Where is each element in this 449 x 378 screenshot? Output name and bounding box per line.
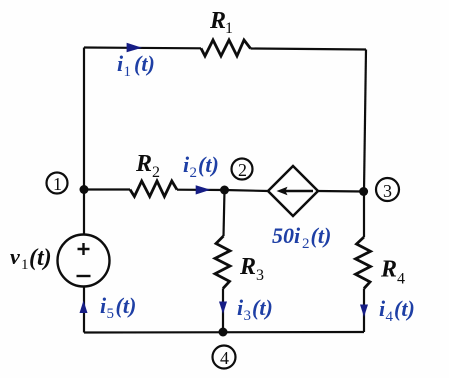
svg-text:3: 3 (244, 308, 252, 324)
svg-text:4: 4 (386, 309, 394, 325)
svg-text:(t): (t) (134, 51, 155, 76)
node 2 label (232, 159, 253, 181)
wire right vertical (364, 50, 366, 192)
label i4(t) (379, 296, 415, 325)
wire R3 down to node4 (222, 288, 224, 332)
resistor R1 (201, 40, 251, 56)
current arrow i5 (80, 301, 88, 314)
wire top from R1 to right corner (251, 49, 367, 50)
svg-text:1: 1 (53, 174, 62, 194)
svg-text:4: 4 (220, 348, 229, 368)
svg-text:4: 4 (397, 271, 405, 288)
resistor R3 (215, 236, 230, 288)
wire middle from node2 to dependent source (225, 190, 269, 191)
label i2(t) (183, 152, 219, 181)
current arrow i4 (360, 305, 368, 318)
svg-text:2: 2 (302, 236, 310, 252)
svg-text:R: R (239, 254, 256, 280)
svg-text:v: v (10, 244, 20, 269)
current arrow i3 (219, 302, 227, 315)
resistor R4 (356, 237, 371, 289)
node 4 junction dot (219, 328, 228, 337)
svg-text:3: 3 (383, 181, 392, 201)
label i5(t) (100, 293, 136, 322)
svg-text:1: 1 (124, 64, 132, 80)
svg-text:(t): (t) (252, 295, 273, 320)
wire bottom (84, 331, 364, 334)
node 4 label (213, 346, 236, 369)
svg-text:1: 1 (225, 20, 233, 37)
resistor R2 (130, 181, 177, 197)
node 1 label (47, 173, 68, 195)
svg-text:2: 2 (190, 165, 198, 181)
node 3 junction dot (359, 187, 368, 196)
node 2 junction dot (220, 186, 229, 195)
current arrow i2 (196, 185, 211, 194)
svg-text:3: 3 (256, 267, 264, 284)
svg-text:R: R (135, 151, 152, 177)
svg-text:R: R (209, 8, 226, 34)
svg-text:(t): (t) (394, 296, 415, 321)
svg-text:2: 2 (152, 164, 160, 181)
svg-text:2: 2 (238, 160, 247, 180)
label R1 (209, 8, 233, 37)
label R3 (239, 254, 264, 284)
svg-text:5: 5 (107, 306, 115, 322)
svg-text:50i: 50i (272, 223, 301, 248)
node 3 label (376, 178, 399, 201)
svg-text:1: 1 (21, 257, 29, 273)
wire R4 down to bottom (363, 289, 365, 333)
label R4 (380, 257, 405, 288)
label 50i2(t) (272, 223, 331, 252)
wire middle from source to node3 (318, 190, 364, 193)
current arrow i1 (127, 43, 142, 53)
node 1 junction dot (80, 185, 89, 194)
wire top from node1 corner to R1 (84, 46, 201, 49)
svg-text:(t): (t) (311, 223, 332, 248)
svg-text:(t): (t) (29, 245, 52, 271)
label v1(t) (10, 244, 52, 273)
wire middle from node1 to R2 (84, 188, 130, 190)
dependent current source 50i2(t) (268, 166, 318, 216)
svg-text:(t): (t) (116, 293, 137, 318)
wire node2 down to R3 (224, 190, 225, 236)
svg-text:R: R (380, 257, 397, 283)
wire left vertical lower (83, 287, 85, 333)
wire left vertical upper (83, 48, 85, 236)
label R2 (135, 151, 160, 181)
wire node3 down to R4 (363, 192, 365, 238)
label i3(t) (237, 295, 273, 324)
label i1(t) (117, 51, 155, 80)
svg-text:(t): (t) (198, 152, 219, 177)
wire middle from R2 to node2 (177, 189, 225, 192)
voltage source V1 (58, 235, 110, 287)
